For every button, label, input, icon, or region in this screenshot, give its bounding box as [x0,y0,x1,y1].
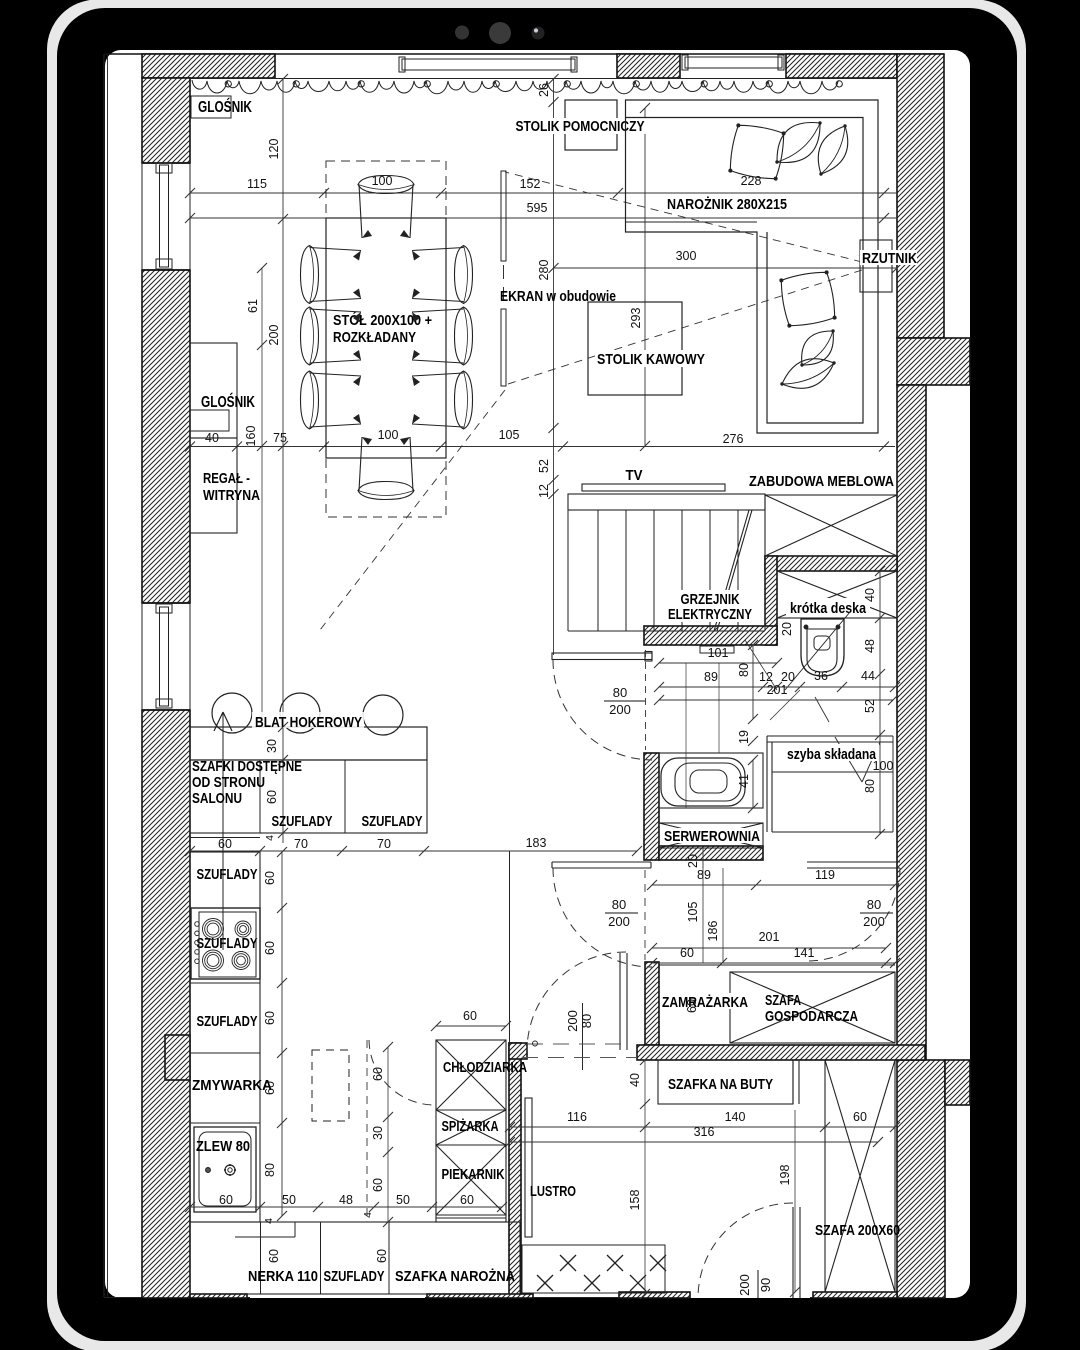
bathroom door swing [553,868,652,967]
dimension 595 [190,217,897,219]
chair bottom [358,437,414,500]
svg-text:SALONU: SALONU [192,790,242,807]
svg-text:120: 120 [267,139,281,160]
tablet screen [105,50,970,1298]
svg-text:TV: TV [626,467,643,484]
svg-text:60: 60 [218,837,232,851]
svg-text:140: 140 [725,1110,746,1124]
screen EKRAN dashed line [501,171,506,261]
wall left lower [142,710,190,1298]
svg-text:80: 80 [613,685,627,700]
hall dashed guides [644,870,646,960]
svg-text:80: 80 [579,1014,594,1028]
svg-text:12: 12 [537,484,551,498]
svg-text:SZUFLADY: SZUFLADY [362,814,423,830]
sofa cushion top 1 [777,123,820,163]
svg-text:60: 60 [263,871,277,885]
wall hall partition top bracket [509,1043,527,1059]
svg-text:119: 119 [815,868,835,882]
wall right lower [897,1060,945,1298]
wall top-left corner block [142,54,275,78]
entry inner door swing [527,952,626,1051]
svg-text:80: 80 [612,897,626,912]
sofa cushion right 1 [802,331,834,365]
svg-text:19: 19 [737,730,751,744]
tall cabinets column [436,1040,506,1222]
camera dots [455,26,469,40]
cabinet regal witryna [190,438,237,533]
wall left upper [142,78,190,163]
dimension chain bottom of living room [190,446,895,448]
svg-text:316: 316 [694,1125,715,1139]
svg-text:160: 160 [244,426,258,447]
hall upper door leaf [552,653,652,660]
side table STOLIK POMOCNICZY [565,100,617,150]
svg-text:GLOŚNIK: GLOŚNIK [198,98,253,116]
projector RZUTNIK [860,240,892,292]
stove hob [191,908,260,979]
wall bottom strip kitchen right [427,1294,533,1298]
corner sofa NAROZNIK 280X215 [626,100,879,433]
svg-text:4: 4 [264,835,276,841]
right door to freezer room [807,861,900,863]
svg-text:SZAFA: SZAFA [765,992,801,1009]
svg-text:12: 12 [759,670,773,684]
svg-text:GOSPODARCZA: GOSPODARCZA [765,1008,858,1025]
svg-text:115: 115 [247,177,267,191]
svg-text:ZMYWARKA: ZMYWARKA [192,1078,272,1094]
svg-text:50: 50 [396,1193,410,1207]
svg-text:141: 141 [794,946,815,960]
mirror LUSTRO [525,1098,532,1237]
svg-text:80: 80 [737,663,751,677]
svg-text:SZUFLADY: SZUFLADY [197,867,258,883]
chair left 2 [301,307,362,365]
hall upper door swing [553,660,652,760]
svg-text:40: 40 [628,1073,642,1087]
svg-text:61: 61 [246,299,260,313]
svg-text:60: 60 [263,1081,277,1095]
svg-text:STÓŁ 200X100 +: STÓŁ 200X100 + [333,311,432,329]
vertical dimension chain right (26/280/52/12) [553,79,555,655]
svg-text:200: 200 [608,914,630,929]
svg-text:60: 60 [265,790,279,804]
svg-text:NERKA 110: NERKA 110 [248,1269,318,1285]
dim over fridge [436,1025,506,1027]
wall bathroom lower-left strip [644,753,659,860]
svg-text:SZUFLADY: SZUFLADY [324,1269,385,1285]
chair right 2 [412,307,473,365]
bar stools [212,693,252,733]
leader lines bathroom [745,640,777,690]
wall left pilaster bump [165,1035,190,1080]
bathroom cabinet crossed [777,571,897,618]
svg-text:40: 40 [863,588,877,602]
svg-text:60: 60 [263,941,277,955]
wall bathroom bottom strip [659,846,763,860]
svg-text:WITRYNA: WITRYNA [203,487,260,504]
window left upper [142,162,190,164]
svg-text:ZLEW 80: ZLEW 80 [196,1139,250,1155]
svg-text:100: 100 [378,428,399,442]
window band top with curtain rails [190,78,897,80]
svg-text:60: 60 [263,1011,277,1025]
wall freezer room left [645,962,659,1045]
svg-text:89: 89 [697,868,711,882]
utility wardrobe SZAFA GOSPODARCZA [730,972,895,1043]
shoe cabinet [658,1060,793,1104]
wall bathroom top strip [765,556,897,571]
closet crossed section [765,495,897,556]
svg-text:48: 48 [339,1193,353,1207]
svg-text:4: 4 [263,1218,275,1224]
window left lower [142,602,190,604]
svg-text:60: 60 [680,946,694,960]
bathroom door 80/200 top [552,861,651,863]
dimension chain top (115/100/152/228) [190,192,897,194]
svg-text:GLOŚNIK: GLOŚNIK [201,393,256,411]
pantry door swing [369,1040,433,1105]
svg-text:30: 30 [371,1126,385,1140]
chair right 1 [412,246,473,304]
svg-text:EKRAN w obudowie: EKRAN w obudowie [500,289,616,305]
svg-text:OD STRONU: OD STRONU [192,774,265,791]
hall boundary line [509,851,511,1043]
wall left middle [142,270,190,603]
svg-text:300: 300 [676,249,697,263]
svg-text:szyba składana: szyba składana [787,746,877,763]
svg-text:SZAFKA NAROŻNA: SZAFKA NAROŻNA [395,1268,515,1285]
chair left 3 [301,371,362,429]
svg-text:44: 44 [861,669,875,683]
section arrow [222,712,224,950]
bottom-right dimensions [510,1126,895,1128]
svg-text:105: 105 [499,428,520,442]
chair left 1 [301,246,362,304]
svg-text:90: 90 [758,1278,773,1292]
bar dims [278,722,288,732]
svg-text:krótka deska: krótka deska [790,600,867,617]
svg-text:STOLIK KAWOWY: STOLIK KAWOWY [597,351,705,368]
doormat [522,1245,665,1293]
entry door [792,1207,794,1298]
svg-text:SZUFLADY: SZUFLADY [272,814,333,830]
svg-text:60: 60 [460,1193,474,1207]
wall bottom strip center [619,1292,690,1298]
svg-text:41: 41 [737,774,751,788]
svg-text:276: 276 [723,432,744,446]
svg-text:101: 101 [708,646,729,660]
svg-text:293: 293 [629,308,643,329]
svg-text:89: 89 [704,670,718,684]
entry door swing [698,1203,793,1298]
svg-text:52: 52 [863,699,877,713]
svg-text:20: 20 [780,622,794,636]
speaker column left [190,343,237,438]
svg-text:36: 36 [814,669,828,683]
svg-text:60: 60 [371,1178,385,1192]
svg-text:4: 4 [362,1212,374,1218]
sofa pillow top [728,123,786,181]
svg-text:80: 80 [863,779,877,793]
washbasin [659,753,763,808]
svg-text:200: 200 [609,702,631,717]
wall right middle [897,385,926,1060]
svg-text:50: 50 [282,1193,296,1207]
wall bottom strip right [813,1292,897,1298]
dimension 300 projector [554,267,898,269]
kitchen counter left column [190,852,260,1222]
wall right stub to frame [897,338,970,385]
sofa cushion top 2 [818,126,848,174]
svg-text:NAROŻNIK 280X215: NAROŻNIK 280X215 [667,196,787,213]
svg-text:200: 200 [863,914,885,929]
svg-text:186: 186 [706,921,720,942]
svg-text:70: 70 [377,837,391,851]
svg-text:100: 100 [873,759,894,773]
hall entry door (wiatrolap) [619,953,621,1050]
svg-text:200: 200 [267,325,281,346]
kitchen vertical dim chain [281,852,283,1216]
svg-text:SZAFA 200X60: SZAFA 200X60 [815,1223,900,1239]
TV [582,484,725,491]
svg-text:60: 60 [853,1110,867,1124]
svg-text:80: 80 [263,1163,277,1177]
shower glass szyba skladana [767,735,893,737]
svg-text:60: 60 [371,1067,385,1081]
svg-text:PIEKARNIK: PIEKARNIK [442,1167,505,1183]
svg-text:152: 152 [520,177,541,191]
svg-text:SZUFLADY: SZUFLADY [197,936,258,952]
wall bottom strip kitchen left [190,1294,247,1298]
speaker label top-left [191,96,231,118]
svg-text:SZAFKI DOSTĘPNE: SZAFKI DOSTĘPNE [192,758,302,775]
wall right lower stub [945,1060,970,1105]
wall freezer room bottom [637,1045,925,1060]
svg-text:RZUTNIK: RZUTNIK [862,251,917,267]
svg-text:198: 198 [778,1165,792,1186]
svg-text:REGAŁ -: REGAŁ - [203,470,250,487]
coffee table STOLIK KAWOWY [588,302,682,395]
plan paper border [103,54,105,1297]
sofa cushion right 2 [782,359,834,389]
chair right 3 [412,371,473,429]
svg-text:ELEKTRYCZNY: ELEKTRYCZNY [668,606,752,623]
wall hall partition [509,1043,521,1298]
svg-text:ROZKŁADANY: ROZKŁADANY [333,329,416,346]
svg-text:70: 70 [294,837,308,851]
svg-text:158: 158 [628,1190,642,1211]
svg-text:ZABUDOWA MEBLOWA: ZABUDOWA MEBLOWA [749,474,894,490]
sink ZLEW 80 [194,1127,256,1212]
dining table solid top [326,218,446,458]
bathroom opening dashes [645,650,647,750]
door stop dot [533,1041,538,1046]
curtain garland [192,80,842,94]
svg-text:60: 60 [219,1193,233,1207]
closet diagonal rod [714,510,749,631]
washbasin top cabinet [700,646,734,653]
right door swing [807,868,900,961]
wall bathroom left horizontal [644,626,777,645]
svg-text:200: 200 [565,1010,580,1032]
svg-text:201: 201 [759,930,780,944]
sofa pillow right [779,270,837,328]
svg-text:75: 75 [273,431,287,445]
svg-text:595: 595 [527,201,548,215]
svg-text:48: 48 [863,639,877,653]
projector beams [505,172,862,262]
svg-text:183: 183 [526,836,547,850]
svg-text:116: 116 [567,1110,587,1124]
island dashed [312,1050,349,1121]
wall right upper [897,54,944,338]
svg-text:BLAT HOKEROWY: BLAT HOKEROWY [255,714,362,731]
svg-text:CHŁODZIARKA: CHŁODZIARKA [443,1060,527,1076]
hall dimensions [702,848,704,868]
server closet SERWEROWNIA [659,823,763,848]
kitchen bottom row [190,1222,520,1294]
svg-text:ZAMRAŻARKA: ZAMRAŻARKA [662,994,748,1011]
vertical dimension 293 [644,108,646,446]
svg-text:60: 60 [267,1249,281,1263]
svg-text:30: 30 [265,739,279,753]
svg-text:80: 80 [867,897,881,912]
svg-text:LUSTRO: LUSTRO [530,1183,576,1200]
vertical dimension chain left (120/200) [282,79,284,843]
wall bathroom left upper [765,556,777,645]
svg-text:60: 60 [375,1249,389,1263]
svg-text:60: 60 [463,1009,477,1023]
bathroom dimensions [659,662,777,664]
wardrobe SZAFA 200X60 [825,1060,895,1292]
svg-text:200: 200 [737,1274,752,1296]
svg-text:SERWEROWNIA: SERWEROWNIA [664,828,760,845]
svg-text:105: 105 [686,902,700,923]
wall top middle block [617,54,680,78]
dining table STOL 200X100 extension outline [326,161,446,517]
svg-text:60: 60 [685,999,699,1013]
svg-text:280: 280 [537,260,551,281]
chair top [358,176,414,239]
svg-text:20: 20 [686,854,700,868]
wall top right block [786,54,897,78]
svg-text:20: 20 [781,670,795,684]
svg-text:SZUFLADY: SZUFLADY [197,1014,258,1030]
built-in closet ZABUDOWA MEBLOWA [568,494,765,510]
bathroom extension lines [685,663,687,808]
svg-text:201: 201 [767,683,788,697]
toilet [785,612,850,690]
freezer room interior [659,964,895,966]
svg-text:52: 52 [537,459,551,473]
kitchen bottom dim chain [190,1206,502,1208]
svg-text:SZAFKA NA BUTY: SZAFKA NA BUTY [668,1076,773,1093]
bar counter BLAT HOKEROWY [190,727,427,760]
radiator label [664,590,756,622]
svg-text:SPIŻARKA: SPIŻARKA [442,1118,499,1135]
svg-text:26: 26 [537,83,551,97]
